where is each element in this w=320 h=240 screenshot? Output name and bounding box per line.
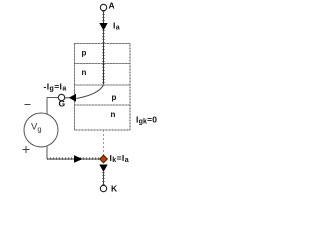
current arrow Ia: [99, 23, 107, 31]
polarity plus: [23, 146, 30, 153]
wire anode (arrow to structure): [102, 30, 105, 43]
layer divider row1/row2: [75, 63, 131, 65]
gate arrow: [69, 94, 76, 102]
GTO layer structure outline: [75, 44, 131, 131]
gate wire curve: [76, 85, 103, 99]
polarity minus: [25, 104, 31, 106]
wire gate (G to corner): [47, 97, 58, 99]
svg-text:p: p: [82, 49, 87, 58]
wire bottom (corner to junction): [47, 157, 100, 161]
wire source bottom (Vg down): [46, 146, 48, 159]
svg-text:n: n: [111, 110, 116, 119]
current arrow gate loop: [74, 155, 83, 162]
junction node: [100, 155, 108, 163]
wire cathode dashed (structure to junction): [103, 130, 105, 155]
terminal A: [100, 4, 106, 10]
wire anode (A to Ia arrow): [102, 11, 105, 24]
terminal K: [100, 185, 106, 191]
svg-text:A: A: [109, 1, 115, 11]
voltage source Vg: [24, 113, 58, 147]
svg-text:p: p: [112, 93, 117, 102]
node G: [58, 94, 64, 100]
wire anode inside structure: [102, 43, 105, 85]
current arrow cathode: [99, 165, 107, 173]
wire gate stub: [65, 97, 70, 99]
wire cathode (arrow to K): [102, 172, 105, 185]
layer divider row2/row3: [75, 84, 131, 86]
svg-text:n: n: [82, 68, 87, 77]
svg-text:K: K: [111, 184, 118, 194]
wire gate (corner down to Vg): [46, 98, 48, 115]
layer divider row3/row4: [75, 104, 131, 106]
svg-text:G: G: [59, 99, 66, 109]
layer vertical divider: [103, 44, 105, 86]
